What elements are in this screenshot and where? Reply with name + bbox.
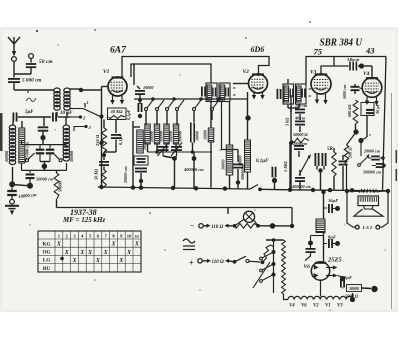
wire secondary top <box>70 88 80 90</box>
svg-text:6D6: 6D6 <box>251 45 265 54</box>
wire tuning bus <box>18 116 51 118</box>
label V2 <box>243 69 250 75</box>
wire V2 grid to IFT1 <box>233 83 249 85</box>
svg-text:5 000 cm: 5 000 cm <box>22 78 41 84</box>
IFT1 capacitor right <box>226 88 236 97</box>
label 50000 <box>69 150 74 162</box>
wire <box>353 124 358 135</box>
capacitor 0.1uF det <box>272 167 277 190</box>
label 5000cm <box>22 78 41 84</box>
volume pot 1M <box>283 143 290 190</box>
loudspeaker magnet <box>364 206 374 209</box>
svg-text:X: X <box>111 242 116 248</box>
label V4 <box>363 71 370 77</box>
label 0.1uF det <box>256 159 269 164</box>
heater chain coils <box>288 296 352 299</box>
filter choke <box>316 219 325 233</box>
svg-text:16µF: 16µF <box>328 198 338 203</box>
svg-text:5µF: 5µF <box>25 110 34 115</box>
capacitor 50cm <box>26 64 37 67</box>
resistor 50k cathode <box>94 167 107 188</box>
svg-text:X: X <box>95 258 100 264</box>
plus sign <box>189 259 194 268</box>
switch on bottom bus <box>250 185 262 192</box>
wire to bus <box>210 142 212 188</box>
svg-text:X: X <box>103 250 108 256</box>
label 20000cm <box>363 149 380 154</box>
capacitor 100cm <box>295 103 308 113</box>
wire to 200 ohm <box>347 132 357 145</box>
capacitor padder <box>38 127 49 130</box>
svg-text:10000: 10000 <box>149 130 154 142</box>
voltage selector <box>253 241 276 293</box>
coil bottom wires <box>148 143 193 153</box>
bottom bus right <box>288 188 389 193</box>
capacitor and node <box>135 168 147 183</box>
mains switch <box>233 256 263 263</box>
svg-text:X: X <box>134 242 139 248</box>
wires to coils <box>146 111 212 126</box>
trimmer capacitor osc 1 <box>158 143 169 157</box>
switch bus wire <box>134 98 248 100</box>
resistor box 10000 <box>343 285 362 292</box>
svg-text:200 Ω: 200 Ω <box>348 147 353 159</box>
svg-text:10: 10 <box>127 234 132 239</box>
wire to LS2 left <box>347 191 355 227</box>
ballast resistor <box>282 240 286 294</box>
svg-text:10000: 10000 <box>158 130 163 142</box>
svg-text:5000 cm: 5000 cm <box>342 84 347 99</box>
trimmer common node <box>40 162 50 169</box>
svg-text:V1: V1 <box>103 69 110 75</box>
bottom bus left <box>98 185 250 190</box>
svg-text:SBR 384 U: SBR 384 U <box>320 38 364 49</box>
wires coil bottoms <box>57 112 67 117</box>
antenna <box>8 37 20 57</box>
plus terminal <box>198 259 202 263</box>
svg-text:36 µF: 36 µF <box>375 103 380 115</box>
label 400000cm <box>291 184 311 189</box>
capacitor <box>339 155 348 190</box>
resistor 110 ohm upper <box>207 224 229 230</box>
svg-text:V4: V4 <box>363 71 370 77</box>
svg-text:50000: 50000 <box>238 155 243 166</box>
label 50cm <box>39 59 53 65</box>
capacitor 8uF output <box>338 276 346 288</box>
label MF 125kHz <box>62 216 105 224</box>
IFT1 left bottom wire <box>210 102 212 129</box>
wire <box>43 117 45 126</box>
wire <box>58 116 70 118</box>
IFT2 capacitor right <box>302 89 311 98</box>
label 25Z5 <box>327 257 342 264</box>
wire to ground <box>11 196 13 200</box>
plate wire V3 to right rail <box>306 57 386 85</box>
wire antenna to earth cap <box>14 62 31 75</box>
wire <box>320 170 322 190</box>
svg-text:20000 cm: 20000 cm <box>123 166 128 184</box>
resistor 50000 det <box>292 132 309 143</box>
wire IFT2 top stub <box>287 79 289 84</box>
node V2 cathode <box>245 115 250 120</box>
capacitor tone 1 <box>369 156 385 160</box>
label 6A7 <box>110 46 127 56</box>
svg-text:0,1µF: 0,1µF <box>126 109 131 120</box>
loudspeaker transformer box <box>358 196 379 206</box>
resistor 50000 with label <box>54 173 62 200</box>
earth terminal <box>29 54 34 59</box>
svg-text:+: + <box>189 259 194 268</box>
page crease line <box>391 93 393 309</box>
wire IFT1 top <box>210 82 212 84</box>
resistor 10000 IF <box>203 128 214 142</box>
svg-text:10000: 10000 <box>177 130 182 142</box>
IFT2 bottom wires <box>288 104 299 112</box>
grid wire V1 to IFT1 <box>131 64 211 83</box>
padder node and label <box>183 152 204 188</box>
wire to LS2 right <box>380 191 388 227</box>
svg-text:1 MΩ: 1 MΩ <box>283 161 288 172</box>
label V1 <box>103 69 110 75</box>
svg-text:110 Ω: 110 Ω <box>211 225 223 230</box>
svg-text:10000: 10000 <box>349 287 359 291</box>
wire to V1 grid <box>81 89 102 91</box>
oscillator padder capacitor <box>191 123 200 143</box>
svg-text:10 µF: 10 µF <box>60 111 73 116</box>
capacitor 20000cm det <box>292 142 307 149</box>
svg-text:20000: 20000 <box>4 150 9 163</box>
plate wire V1 to V2 <box>122 57 269 78</box>
svg-text:V1: V1 <box>325 304 331 309</box>
capacitor 5uF <box>13 113 16 122</box>
capacitor osc grid <box>138 102 142 118</box>
label LS2 <box>362 225 373 230</box>
coil common wire <box>148 150 213 154</box>
label 10000 <box>143 85 154 90</box>
band switch contact 2 <box>70 115 86 120</box>
label 25000 <box>25 142 30 161</box>
svg-text:X: X <box>72 258 77 264</box>
capacitor tone 2 <box>372 164 386 168</box>
resistor <box>332 148 336 190</box>
input transformer primary L1 <box>54 88 60 110</box>
wire to gang bar <box>42 138 44 145</box>
minus terminal <box>199 224 203 228</box>
dial lamp <box>235 211 259 226</box>
wire bus down <box>291 208 293 226</box>
svg-text:680 kΩ: 680 kΩ <box>347 104 352 117</box>
svg-text:500000 cm: 500000 cm <box>363 170 381 175</box>
label 5000 <box>345 294 359 299</box>
wire <box>132 127 134 176</box>
trimmer blade right <box>53 153 62 162</box>
wire <box>30 68 32 75</box>
label 10000cm <box>18 192 37 199</box>
IFT1 capacitors left <box>202 87 216 97</box>
wires <box>104 120 116 134</box>
svg-text:20000cm: 20000cm <box>292 142 307 146</box>
waveband table <box>38 231 141 272</box>
wire lamp to node <box>256 223 294 229</box>
wire <box>358 116 367 144</box>
wire <box>140 181 142 188</box>
branch node <box>308 236 324 246</box>
wire <box>43 166 45 170</box>
wire <box>260 188 290 191</box>
wire <box>229 260 233 263</box>
V2 arrows <box>252 92 265 100</box>
wire <box>56 170 58 173</box>
node grid junction <box>79 88 83 92</box>
wire <box>132 176 134 188</box>
svg-text:8µF: 8µF <box>344 275 352 280</box>
handwriting mark <box>26 98 36 102</box>
cathode capacitor box 36uF <box>361 103 380 116</box>
capacitor 5000cm grid <box>351 84 363 94</box>
resistor 250 ohm <box>95 128 107 152</box>
B+ rail right <box>383 57 387 191</box>
svg-text:25Z5: 25Z5 <box>327 257 342 264</box>
band switch contact 3 <box>74 125 92 131</box>
resistor 110 ohm lower <box>207 259 229 265</box>
heater labels <box>289 304 343 309</box>
label 6D6 <box>251 45 265 54</box>
label 8uF output <box>344 275 352 280</box>
coupling capacitor <box>347 62 372 71</box>
label 43 <box>365 46 375 56</box>
svg-text:V2: V2 <box>243 69 250 75</box>
trimmer node <box>163 156 177 188</box>
resistor 680k <box>347 100 358 124</box>
wire <box>203 225 206 227</box>
label <box>126 109 131 120</box>
IF transformer 2 <box>283 84 306 104</box>
svg-text:X: X <box>56 242 61 248</box>
svg-text:m: m <box>135 234 139 239</box>
label 20000cm <box>123 166 128 184</box>
V4 arrows <box>365 97 379 106</box>
svg-text:−: − <box>190 222 194 230</box>
svg-text:X: X <box>126 250 131 256</box>
svg-text:10000: 10000 <box>195 131 200 141</box>
tube V1 <box>108 77 127 96</box>
label 5uF <box>25 110 34 115</box>
svg-text:BU: BU <box>43 266 50 272</box>
svg-text:20000 cm: 20000 cm <box>363 149 380 154</box>
wire det to bus <box>290 143 292 190</box>
capacitor 10pF <box>53 113 56 122</box>
svg-text:8µF: 8µF <box>328 235 336 240</box>
capacitor 5000cm <box>8 79 20 82</box>
wire <box>56 200 58 208</box>
svg-text:10000: 10000 <box>143 85 154 90</box>
V6 output arrows <box>326 266 338 278</box>
wire choke to tube <box>323 233 325 263</box>
wires <box>102 140 116 161</box>
svg-text:10000: 10000 <box>168 130 173 142</box>
svg-text:X: X <box>87 250 92 256</box>
rectifier tube V6 <box>311 262 329 280</box>
label 20000 <box>4 150 9 163</box>
svg-text:6A7: 6A7 <box>110 46 127 56</box>
wire and node <box>40 131 45 140</box>
band switch contact 1 <box>70 100 89 109</box>
resistor 200 <box>344 145 352 165</box>
output node <box>362 286 378 292</box>
svg-text:5R: 5R <box>327 147 334 152</box>
wire to bus <box>346 165 348 191</box>
capacitor 40cm <box>294 116 306 125</box>
svg-text:100 cm: 100 cm <box>295 103 308 108</box>
svg-text:V6: V6 <box>304 264 311 270</box>
svg-text:L S 2: L S 2 <box>362 225 373 230</box>
svg-text:V2: V2 <box>313 304 319 309</box>
svg-text:400000 cm: 400000 cm <box>291 184 311 189</box>
svg-text:250 Ω: 250 Ω <box>95 134 100 147</box>
label 1937-38 <box>70 208 97 217</box>
coil 50000 <box>63 117 69 161</box>
antenna terminal <box>12 57 17 62</box>
capacitor 0.1uF <box>111 134 123 145</box>
svg-text:50000 Ω: 50000 Ω <box>293 132 309 137</box>
trimmer capacitor CV1 <box>36 145 45 162</box>
grid capacitor column <box>26 170 55 188</box>
tuning gang bar wire <box>22 144 67 146</box>
capacitor osc top <box>135 86 145 102</box>
speaker field coil <box>345 189 390 193</box>
wire <box>360 141 362 157</box>
svg-text:50000: 50000 <box>221 159 226 170</box>
band switch blade <box>83 109 104 119</box>
capacitor cathode <box>99 162 109 165</box>
tuning coil left <box>9 121 15 165</box>
resistor 30K box <box>108 108 127 120</box>
svg-text:Allocat: Allocat <box>346 57 360 62</box>
IFT2 capacitors left <box>277 89 292 100</box>
svg-text:400000 cm: 400000 cm <box>183 167 204 172</box>
label 5R <box>327 147 334 152</box>
resistor 50000 V2 <box>238 140 251 172</box>
LS2 terminals <box>355 225 379 229</box>
left return wire <box>99 87 103 190</box>
label 75 <box>314 47 323 57</box>
coil labels <box>149 130 183 142</box>
loudspeaker cone <box>354 209 383 216</box>
trimmer capacitor CV2 <box>46 145 55 162</box>
tube V2 <box>249 74 268 93</box>
wire V3 top cap to coupling <box>321 57 347 75</box>
label V6 <box>304 264 311 270</box>
capacitor 400000 <box>295 170 305 190</box>
svg-text:KG: KG <box>42 241 50 247</box>
label 5000cm grid <box>342 84 347 99</box>
svg-text:V4: V4 <box>289 304 295 309</box>
potentiometer arrow <box>299 154 311 175</box>
wire to input coil <box>14 83 54 90</box>
wire to V4 top <box>371 66 373 78</box>
capacitor to earth <box>7 187 17 195</box>
svg-text:X: X <box>79 250 84 256</box>
boxed capacitor <box>134 156 148 165</box>
trimmer capacitor osc 2 <box>171 143 182 157</box>
AC mains symbol <box>183 239 195 250</box>
svg-text:110 Ω: 110 Ω <box>212 260 224 265</box>
svg-text:50000: 50000 <box>69 150 74 162</box>
IF transformer 1 <box>206 83 230 102</box>
coil link wires <box>21 121 24 145</box>
earth terminal <box>10 199 15 204</box>
svg-text:MF = 125 kHz: MF = 125 kHz <box>62 216 105 224</box>
svg-text:0,1µF: 0,1µF <box>118 134 123 145</box>
wave band switches <box>145 100 220 111</box>
svg-text:50 KΩ: 50 KΩ <box>94 168 99 180</box>
wire <box>13 74 15 78</box>
minus sign <box>190 222 194 230</box>
input transformer secondary L2 <box>64 88 70 110</box>
wire <box>298 151 300 157</box>
svg-text:10000: 10000 <box>203 130 208 140</box>
IFT1 right bottom wire <box>229 102 231 146</box>
svg-text:V3: V3 <box>337 304 343 309</box>
label coupling cap <box>346 57 360 62</box>
capacitor 8uF lower <box>324 239 341 248</box>
filter line from bus <box>321 190 325 219</box>
svg-text:50000 cm: 50000 cm <box>36 177 54 182</box>
svg-text:30 KΩ: 30 KΩ <box>110 109 124 114</box>
capacitor and wire <box>305 245 316 261</box>
ground <box>5 206 19 215</box>
wire coil bottom <box>9 167 15 187</box>
page edge marks right <box>395 150 397 181</box>
wire top <box>266 238 284 242</box>
svg-text:1: 1 <box>87 100 89 105</box>
svg-text:LG: LG <box>43 258 51 264</box>
svg-text:OG: OG <box>42 250 50 256</box>
label V3 <box>310 70 317 76</box>
V6 cathode to heater chain <box>320 280 322 296</box>
wires <box>299 114 301 132</box>
trimmer blade left <box>26 153 35 162</box>
speckles <box>27 21 386 310</box>
label 16uF <box>328 198 338 203</box>
tube V4 <box>362 78 382 98</box>
wire to heater chain <box>284 294 289 300</box>
wire <box>247 172 249 189</box>
scan artifact dark bar on left edge <box>0 113 3 151</box>
switch bus nodes <box>151 97 221 101</box>
heater chain end node <box>350 293 355 302</box>
bottom bus C <box>57 208 292 215</box>
capacitors pair <box>315 153 325 173</box>
capacitor 20000cm <box>233 150 245 190</box>
svg-text:5 kΩ: 5 kΩ <box>285 117 290 126</box>
svg-text:X: X <box>118 258 123 264</box>
svg-text:50 cm: 50 cm <box>39 59 53 65</box>
V3 arrows <box>315 94 328 105</box>
title SBR 384 U <box>320 38 364 49</box>
capacitor 16uF upper <box>324 204 341 213</box>
label 500000cm <box>363 170 381 175</box>
wire grid <box>102 86 109 88</box>
resistor shunt <box>235 224 259 229</box>
wire <box>202 260 207 262</box>
svg-text:5000 Ω: 5000 Ω <box>345 294 359 299</box>
svg-text:43: 43 <box>365 46 375 56</box>
oscillator coil bank <box>145 124 179 144</box>
svg-text:0,1µF: 0,1µF <box>256 159 269 164</box>
tuning bottom wire <box>22 163 67 170</box>
resistor 25000 <box>19 128 25 163</box>
